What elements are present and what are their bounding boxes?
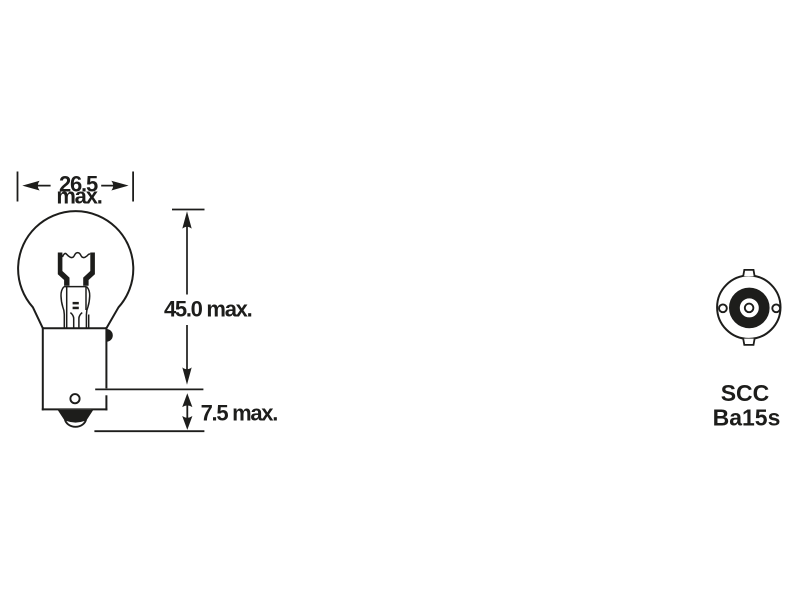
socket view: outer circle [717, 276, 780, 339]
glass stem inner right line [88, 315, 90, 329]
svg-text:SCC: SCC [721, 380, 770, 406]
dimension 26.5: right extension line [132, 172, 134, 202]
svg-text:Ba15s: Ba15s [713, 405, 781, 431]
dimension 45.0: lower arrow (down) [182, 325, 191, 385]
socket view: center contact ring [745, 304, 754, 313]
dimension 26.5: left extension line [17, 172, 19, 202]
solder contact outline (dome) [58, 409, 92, 426]
solder contact black top [58, 409, 92, 422]
exhaust tube left flare [70, 313, 73, 329]
seating plane line (upper right horizontal) [95, 388, 203, 390]
glass stem top edge [64, 286, 87, 288]
dimension 45.0: upper arrow (up) [182, 211, 191, 294]
filament support post left (black) [58, 253, 70, 286]
dimension 45.0: top extension line [172, 209, 205, 211]
base cap bottom edge [42, 408, 108, 410]
base cap left edge [42, 327, 44, 410]
base cap top edge [43, 327, 107, 329]
svg-text:45.0 max.: 45.0 max. [164, 296, 252, 321]
socket view: bottom tab [743, 339, 754, 345]
svg-text:max.: max. [56, 184, 101, 209]
socket view: right hole [772, 304, 780, 312]
glass stem outer left side [61, 287, 64, 329]
glass stem inner right upper [85, 287, 87, 310]
bayonet pin face-on (circle) [70, 394, 79, 403]
dimension 26.5: left arrow [22, 181, 50, 191]
socket view: black annulus [734, 293, 764, 323]
filament coil (wavy line) [62, 253, 90, 258]
bayonet pin side profile (black bump) [106, 329, 112, 342]
exhaust tube right flare [79, 313, 82, 329]
glass stem inner left line [66, 287, 68, 329]
dimension 7.5: double arrow [182, 393, 192, 430]
contact plane line (lower right horizontal) [94, 430, 204, 432]
filament support post right (black) [83, 253, 95, 286]
stem pinch mark upper [73, 302, 79, 305]
base cap right edge upper segment [105, 327, 107, 388]
socket view: top tab [743, 270, 754, 276]
base cap right edge lower segment [105, 395, 107, 410]
stem pinch mark lower [73, 307, 79, 310]
svg-text:7.5 max.: 7.5 max. [201, 401, 278, 426]
glass stem outer right side [86, 287, 89, 329]
socket view: left hole [719, 304, 727, 312]
dimension 26.5: right arrow [101, 181, 128, 191]
bulb glass envelope [18, 211, 133, 328]
